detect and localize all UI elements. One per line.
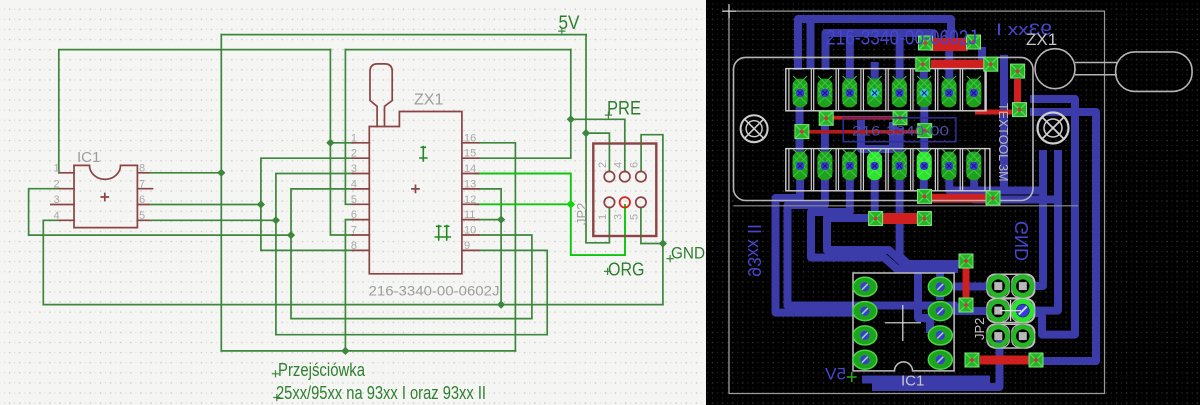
socket pad ZX1-bot-8: [966, 149, 981, 180]
IC1 plus mark: [101, 194, 108, 201]
svg-text:25xx/95xx na 93xx I oraz 93xx: 25xx/95xx na 93xx I oraz 93xx II: [276, 383, 486, 403]
svg-text:6: 6: [629, 162, 641, 168]
svg-text:PRE: PRE: [607, 99, 641, 120]
pad IC1-4-L: [853, 350, 877, 369]
wire ZX1 pin11 link: [479, 219, 502, 221]
socket silkscreen outline: [734, 57, 1034, 200]
svg-text:IC1: IC1: [901, 373, 924, 390]
JP2 origin cross: [1000, 300, 1021, 321]
pad IC1-4-R: [928, 350, 952, 369]
red link to socket pads: [975, 110, 1013, 115]
schematic text labels: [77, 92, 589, 299]
smd pad P5: [795, 125, 809, 139]
IC1 center cross: [885, 305, 921, 341]
wire 5V right drop: [585, 35, 587, 134]
wire PRE to JP2 pin4: [571, 119, 625, 171]
svg-text:IC1: IC1: [77, 149, 100, 166]
trace stub pad4 top: [871, 62, 879, 80]
trace pad4 mid band inner: [827, 175, 962, 264]
wire ZX1 pin1 stub link: [330, 142, 353, 144]
svg-text:216-3340-00-0602J: 216-3340-00-0602J: [369, 283, 500, 299]
blue traces bottom copper: [776, 19, 1097, 387]
svg-text:GND: GND: [1012, 221, 1032, 261]
label crosses: [273, 28, 674, 400]
ZX1 plus mark: [412, 185, 419, 192]
trace mid v2: [821, 124, 829, 152]
smd pad P16: [959, 298, 973, 312]
red bar top 2: [931, 60, 990, 69]
svg-text:Przejściówka: Przejściówka: [278, 360, 366, 380]
trace right outer r4: [1030, 112, 1096, 361]
wire PRE top rail: [345, 49, 570, 51]
trace pad8 to JP2 row2: [974, 178, 1058, 200]
trace right vert B: [1034, 150, 1058, 311]
svg-text:ORG: ORG: [608, 260, 645, 280]
red bar mid right: [929, 194, 990, 203]
JP2 pin6 circle: [636, 171, 646, 181]
svg-text:11: 11: [464, 209, 475, 221]
svg-text:3: 3: [54, 194, 60, 206]
wire ZX1 pin16 drop: [479, 143, 516, 351]
socket pad ZX1-top-2: [817, 76, 832, 107]
svg-text:1: 1: [597, 214, 609, 220]
ZX1 position II glyph: [435, 226, 450, 241]
ZX1 position I glyph: [420, 147, 427, 162]
pad IC1-3-L: [853, 326, 877, 345]
svg-text:14: 14: [464, 163, 476, 175]
svg-text:16: 16: [464, 132, 476, 144]
IC1 footprint outline: [853, 273, 954, 371]
ZX1 pin numbers: [351, 132, 476, 252]
trace pad1 sweep to IC1: [776, 175, 854, 313]
socket pad ZX1-bot-2: [817, 149, 832, 180]
trace right vert A: [1031, 150, 1043, 286]
svg-text:3: 3: [613, 214, 625, 220]
socket pad ZX1-bot-3: [842, 149, 857, 180]
svg-text:JP2: JP2: [574, 203, 589, 225]
socket pad ZX1-top-6: [917, 76, 932, 107]
value frame: [843, 118, 956, 142]
socket pad ZX1-top-3: [842, 76, 857, 107]
smd pad P17: [965, 353, 979, 367]
smd pad P4: [984, 57, 998, 71]
svg-text:7: 7: [351, 225, 357, 237]
svg-text:10: 10: [464, 225, 476, 237]
svg-text:12: 12: [464, 194, 476, 206]
junction ZX1.11 GND: [497, 215, 505, 223]
red bar top 1: [930, 38, 968, 51]
red bar jp2 bottom: [980, 356, 1030, 365]
socket pad window bottom: [786, 149, 990, 191]
ZX1 body outline: [369, 112, 462, 274]
wire IC1 pin1 riser: [59, 50, 331, 173]
wire ZX1 pin14 ORG: [475, 174, 625, 256]
junction ZX1.1: [326, 139, 334, 147]
pad IC1-1-R: [928, 277, 952, 296]
junction dots dark green: [217, 115, 667, 355]
lever handle pill: [1116, 52, 1193, 92]
trace stub under P2: [978, 47, 986, 62]
trace stub pad5 top: [896, 30, 904, 80]
trace mid v4: [896, 128, 904, 152]
JP2 pin3 circle highlighted: [620, 197, 630, 207]
svg-text:GND: GND: [671, 244, 705, 263]
svg-text:8: 8: [351, 240, 357, 252]
pad JP2-2-2: [1012, 300, 1034, 322]
svg-text:ZX1: ZX1: [414, 92, 443, 109]
svg-text:13: 13: [464, 178, 476, 190]
board outline: [723, 5, 1105, 394]
IC1 footprint pads: [853, 277, 952, 369]
trace top inner U: [826, 33, 933, 70]
pad IC1-1-L: [853, 277, 877, 296]
JP2 pin numbers rotated: [597, 162, 641, 220]
wire ZX1 pin9 rail: [276, 220, 547, 334]
trace mid U small: [861, 120, 893, 149]
title text: [276, 360, 486, 403]
JP2 footprint row outlines: [987, 274, 1035, 348]
socket pad ZX1-top-5: [892, 76, 907, 107]
junction GND label: [659, 239, 667, 247]
mount hole right: [1038, 113, 1069, 144]
svg-text:2: 2: [351, 148, 357, 160]
pad JP2-3-1: [987, 325, 1009, 347]
trace top outer U: [798, 19, 951, 70]
svg-text:6: 6: [139, 194, 145, 206]
svg-text:216-3340-00: 216-3340-00: [852, 124, 949, 139]
net labels green: [559, 13, 706, 280]
red thin mid short: [833, 116, 893, 120]
junction PRE: [567, 115, 575, 123]
smd pad P9: [1011, 64, 1025, 78]
wire ZX1 pin12 ORG: [475, 203, 571, 205]
socket pad ZX1-bot-4: [867, 149, 882, 180]
wire ZX1 pin8 link: [261, 205, 353, 251]
wire ZX1 pin10 rail: [291, 235, 532, 319]
svg-text:5V: 5V: [825, 365, 846, 384]
lever arm lines: [1075, 63, 1117, 75]
smd pad P11: [869, 212, 883, 226]
wire IC1 pin8 to 5V: [149, 172, 222, 174]
smd pad P12: [917, 212, 931, 226]
JP2 pin5 circle: [636, 197, 646, 207]
wire ZX1 pin3 riser: [276, 174, 353, 221]
smd pad P10: [1013, 103, 1027, 117]
trace pad2 long under IC1: [788, 175, 989, 311]
ZX1 symbol: [353, 64, 479, 274]
wire ZX1 pin4 riser: [291, 189, 353, 235]
svg-text:ZX1: ZX1: [1026, 30, 1057, 49]
pad IC1-3-R: [928, 326, 952, 345]
trace mid stair: [900, 170, 958, 269]
trace mid v3: [920, 107, 928, 123]
svg-text:1: 1: [351, 132, 357, 144]
IC1 pin numbers: [54, 163, 146, 223]
svg-text:4: 4: [351, 178, 357, 190]
socket pad ZX1-top-7: [941, 76, 956, 107]
IC1 symbol: [51, 165, 153, 227]
svg-text:5: 5: [351, 194, 357, 206]
trace stub pad3 top: [846, 30, 854, 80]
svg-text:6: 6: [351, 209, 357, 221]
red traces top copper: [809, 45, 1030, 361]
socket pad ZX1-top-4: [867, 76, 882, 107]
wire 5V top rail: [221, 34, 586, 36]
trace pad7 to JP2 row1: [949, 178, 1043, 191]
smd pad P1: [919, 36, 933, 50]
svg-text:5: 5: [139, 210, 145, 222]
svg-text:TEXTOOL 3M: TEXTOOL 3M: [996, 103, 1010, 182]
svg-text:216-3340-00-0602J: 216-3340-00-0602J: [826, 27, 977, 50]
junction ORG bright: [566, 200, 575, 209]
svg-text:1: 1: [54, 163, 60, 175]
socket silkscreen second line: [734, 205, 1079, 207]
pad JP2-2-1: [987, 300, 1009, 322]
junction IC1.6 net: [257, 200, 265, 208]
junction IC1.2 net: [287, 231, 295, 239]
trace stub pad6 top: [920, 62, 928, 80]
svg-text:5: 5: [629, 214, 641, 220]
trace mid v3b: [920, 138, 928, 152]
svg-text:2: 2: [597, 162, 609, 168]
junction 5V/JP2: [582, 129, 590, 137]
lever circle: [1035, 49, 1075, 89]
trace IC1 inner jog: [918, 273, 930, 333]
JP2 pin1 circle: [604, 197, 614, 207]
pad JP2-1-1: [987, 275, 1009, 297]
junction GND rail: [497, 300, 505, 308]
pcb background: [706, 0, 1200, 405]
socket pad ZX1-bot-6: [917, 149, 932, 180]
JP2 footprint pads: [987, 275, 1034, 347]
wire PRE to ZX1 pin15: [479, 50, 571, 159]
socket pad ZX1-bot-1: [793, 149, 808, 180]
wire ZX1 pin13 drop: [479, 189, 502, 305]
trace mid v1: [796, 107, 804, 152]
wire IC1 pin6 to ladder: [149, 204, 261, 206]
wire IC1 pin4 GND loop: [43, 220, 59, 304]
socket pad ZX1-bot-7: [941, 149, 956, 180]
junction 5V/pin6: [341, 347, 349, 355]
trace IC1 to JP2 row1: [953, 283, 988, 291]
schematic background: [0, 0, 706, 405]
trace under IC1 band a: [862, 376, 990, 384]
socket contact separators: [789, 69, 985, 191]
trace stub pad7 top: [945, 30, 953, 80]
wire IC1 pin2 loop: [29, 189, 291, 235]
wire GND right riser: [641, 135, 663, 305]
svg-text:93xx II: 93xx II: [744, 224, 764, 277]
red link right pads: [1014, 79, 1021, 105]
green cross 5V: [847, 372, 857, 382]
wire ZX1 pin1/pin7 drop: [330, 50, 353, 235]
svg-text:3: 3: [351, 163, 357, 175]
svg-text:9: 9: [464, 240, 470, 252]
wire GND bottom rail: [43, 304, 663, 306]
IC1 body with notch: [74, 165, 137, 227]
junction IC1.8/5V: [217, 169, 225, 177]
socket pad ZX1-top-8: [966, 76, 981, 107]
trace top band second: [807, 19, 815, 68]
IC1 pin stubs right: [137, 173, 152, 221]
smd pad P18: [1029, 353, 1043, 367]
wire ZX1 pin2 riser: [261, 158, 353, 204]
pad IC1-2-R: [928, 302, 952, 321]
smd pad P8: [918, 124, 932, 138]
wire 5V left drop: [220, 35, 222, 351]
wire IC1 pin5 to ladder: [149, 219, 276, 221]
red bar right col: [963, 266, 970, 300]
wire 5V to JP2 pin1: [586, 133, 609, 243]
net ORG bright green: [475, 174, 625, 256]
junction IC1.5 net: [272, 216, 280, 224]
socket pad ZX1-top-1: [793, 76, 808, 107]
pad JP2-3-2: [1012, 325, 1034, 347]
wire JP2 pin5 to GND: [641, 208, 663, 244]
JP2 connector body: [593, 144, 656, 237]
board origin cross: [722, 4, 736, 18]
smd pad P15: [959, 254, 973, 268]
wire ZX1 pin6 drop: [345, 220, 353, 351]
svg-text:JP2: JP2: [972, 318, 987, 340]
svg-text:2: 2: [54, 178, 60, 190]
red bar mid left: [882, 213, 919, 224]
svg-text:7: 7: [139, 178, 145, 190]
wire 5V bottom rail: [221, 350, 515, 352]
svg-text:4: 4: [54, 210, 60, 222]
JP2 pin4 circle: [620, 171, 630, 181]
socket pad window top: [786, 69, 986, 111]
trace right outer r3: [1030, 99, 1075, 335]
pad JP2-1-2: [1012, 275, 1034, 297]
trace pad6 stub down: [920, 175, 928, 192]
smd pad P2: [967, 35, 981, 49]
ZX1 pin stubs right: [462, 143, 479, 251]
trace under IC1 band b: [872, 340, 1000, 387]
svg-text:15: 15: [464, 148, 476, 160]
socket pad ZX1-bot-5: [892, 149, 907, 180]
trace right top vertical: [1000, 55, 1008, 191]
smd pad P6: [819, 111, 833, 125]
wire 5V to JP2 pin2: [586, 133, 609, 171]
pad IC1-2-L: [853, 302, 877, 321]
svg-text:4: 4: [613, 162, 625, 168]
smd pad P13: [918, 189, 932, 203]
ZX1 pin stubs left: [353, 143, 370, 251]
smd pad P7: [893, 111, 907, 125]
svg-text:8: 8: [139, 163, 145, 175]
red thin mid long: [809, 130, 918, 134]
mount hole left: [741, 115, 768, 142]
ZX1 lever: [370, 64, 392, 127]
smd pad P3: [916, 57, 930, 71]
wire PRE to ZX1 pin5: [345, 50, 353, 205]
JP2 pin2 circle: [604, 171, 614, 181]
smd pad P14: [986, 191, 1000, 205]
trace pad3 mid band: [811, 175, 940, 300]
IC1 pin stubs left: [51, 173, 74, 221]
